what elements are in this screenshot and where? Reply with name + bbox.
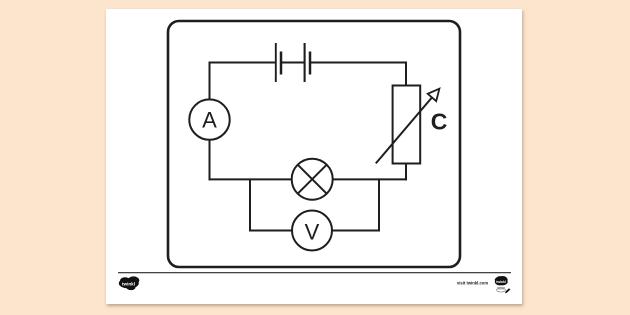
svg-text:A: A <box>202 108 217 133</box>
wire between battery cells <box>281 62 305 64</box>
twinkl quality badge <box>495 276 511 293</box>
battery B1 cell 1 long plate <box>275 43 277 82</box>
wire left vertical lower <box>209 140 211 181</box>
wire right vertical lower <box>405 164 407 181</box>
wire top-left horizontal <box>210 62 276 64</box>
wire voltmeter branch left vertical <box>249 179 251 231</box>
wire bottom-right horizontal <box>333 178 407 180</box>
battery B1 cell 1 short plate <box>280 52 283 75</box>
wire right vertical upper <box>405 62 407 86</box>
twinkl cloud logo <box>119 276 140 290</box>
variable resistor C arrow <box>376 89 440 164</box>
wire top-right horizontal <box>310 62 406 64</box>
ammeter A1 <box>189 99 229 139</box>
wire voltmeter branch right vertical <box>378 178 380 231</box>
lamp L1 <box>292 159 333 200</box>
wire left vertical upper <box>209 62 211 100</box>
wire bottom-left horizontal <box>209 178 292 180</box>
battery B1 cell 2 long plate <box>304 43 306 82</box>
footer separator line <box>118 272 511 274</box>
variable resistor C body <box>393 86 421 164</box>
worksheet page <box>106 9 522 304</box>
circuit border frame <box>168 21 460 267</box>
label C <box>431 108 448 134</box>
svg-text:twinkl: twinkl <box>122 281 135 286</box>
wire voltmeter branch left horizontal <box>249 230 292 232</box>
battery B1 cell 2 short plate <box>309 52 312 75</box>
svg-text:V: V <box>305 220 320 245</box>
voltmeter V1 <box>292 211 332 251</box>
svg-text:C: C <box>431 108 448 134</box>
visit twinkl.com text <box>457 280 488 285</box>
svg-text:visit twinkl.com: visit twinkl.com <box>457 280 488 285</box>
wire voltmeter branch right horizontal <box>332 230 380 232</box>
svg-text:twinkl: twinkl <box>496 280 506 284</box>
